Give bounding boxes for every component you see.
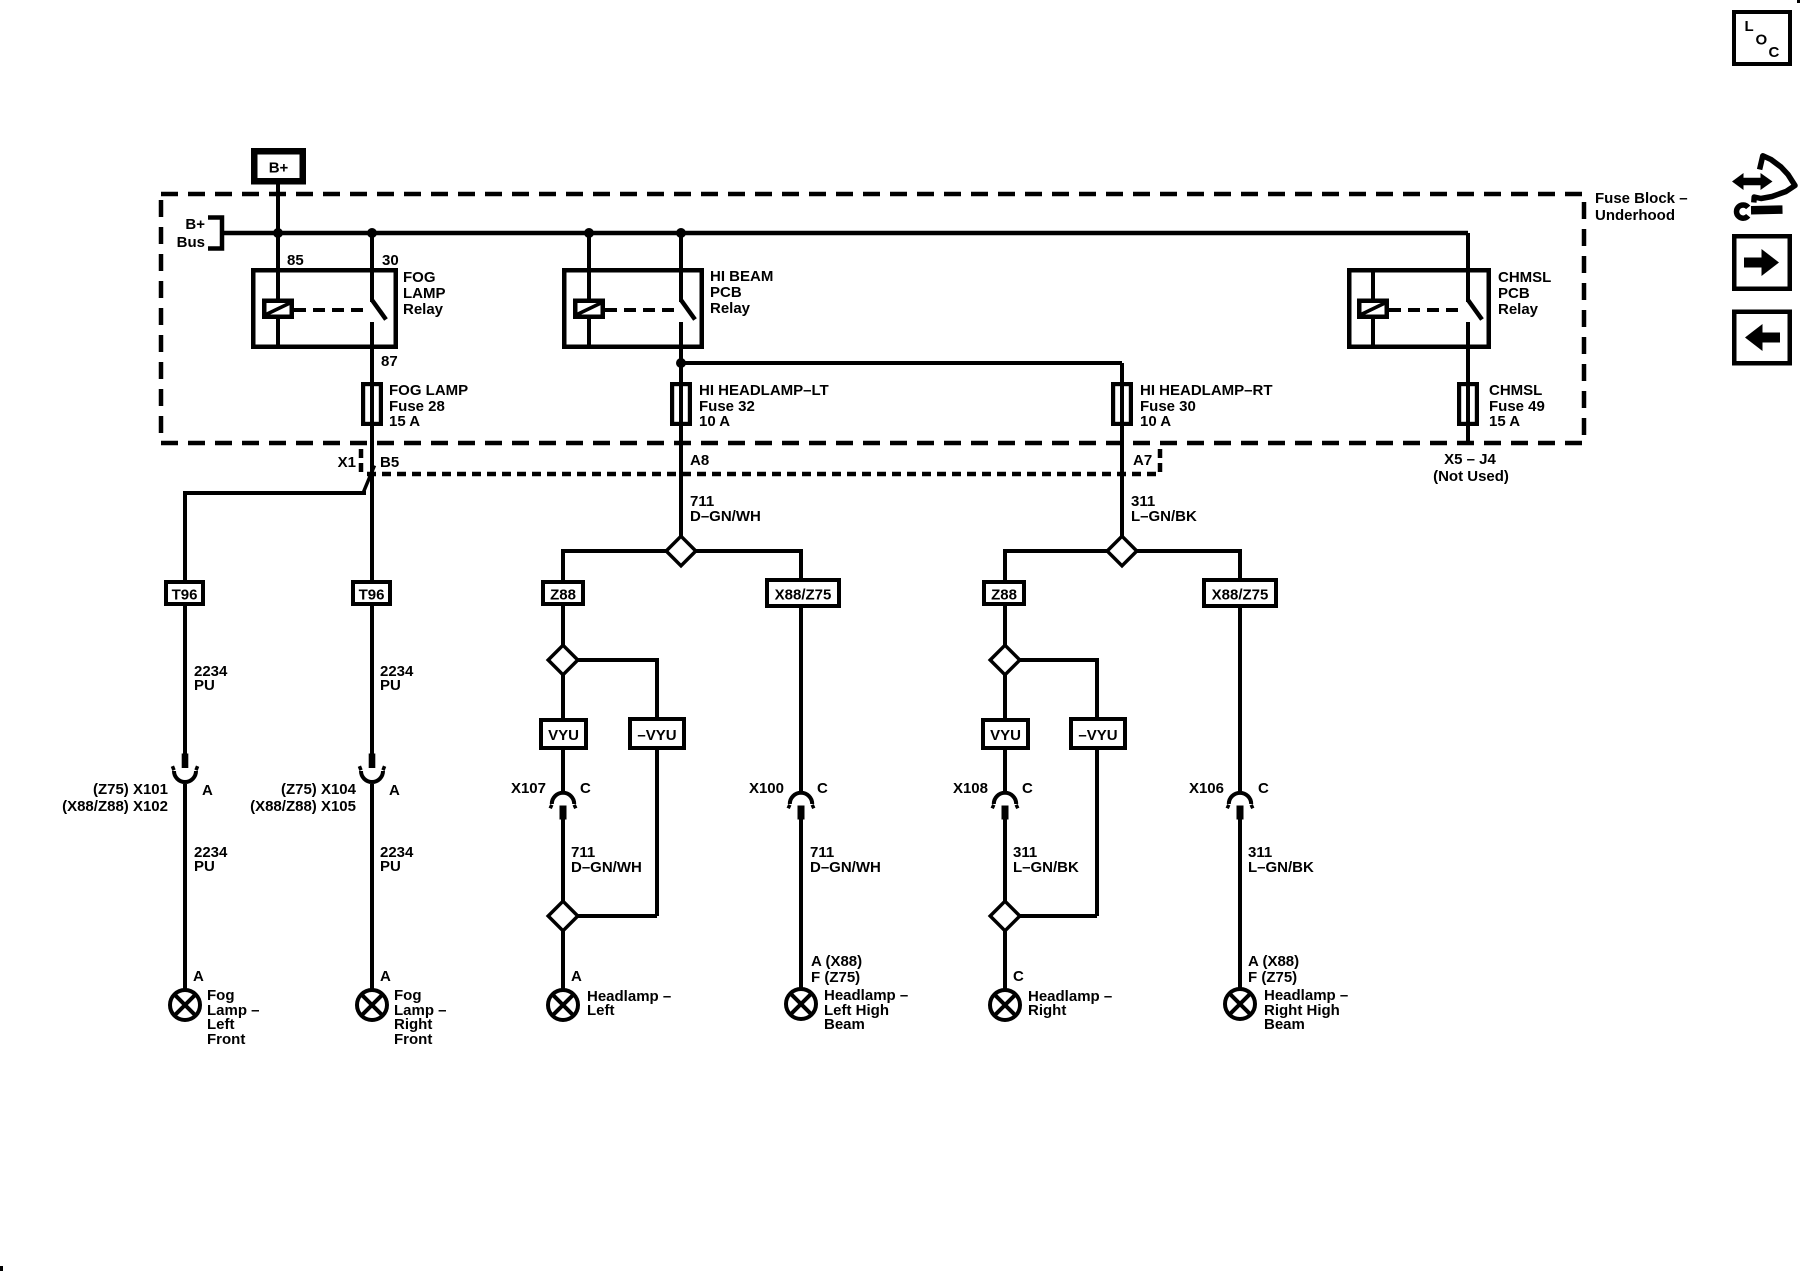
svg-text:A (X88): A (X88) [1248,953,1299,970]
svg-text:Bus: Bus [177,234,205,251]
svg-text:D–GN/WH: D–GN/WH [571,859,642,876]
svg-text:PU: PU [380,677,401,694]
wire Z88 through splice S5 to VYU (right) [1003,606,1007,718]
connector X101/X102 labels [62,781,168,815]
svg-text:(X88/Z88) X105: (X88/Z88) X105 [250,798,356,815]
svg-text:FOG: FOG [403,269,436,286]
connector X5 - J4 label [1433,451,1509,485]
wire 311 L-GN/BK X106 to high beam lamp [1238,820,1242,989]
svg-text:Front: Front [394,1031,432,1048]
terminal C label (X108) [1022,780,1033,797]
svg-text:85: 85 [287,252,304,269]
terminal A/F labels (headlamp right high beam) [1248,953,1299,986]
pin 87 label (FOG LAMP relay) [381,353,398,370]
svg-text:Left: Left [587,1002,615,1019]
wire fuse 49 to X5-J4 (not used) [1466,426,1470,445]
relay FOG LAMP label [403,269,446,318]
svg-text:D–GN/WH: D–GN/WH [810,859,881,876]
connector Z88 (right) [984,582,1024,604]
wire S2 to -VYU branch (left) [563,658,657,717]
svg-text:HI HEADLAMP–RT: HI HEADLAMP–RT [1140,382,1273,399]
svg-text:X5 – J4: X5 – J4 [1444,451,1496,468]
wire fog relay pin 87 to fuse 28 [370,322,374,382]
inline connector X104/X105 (right fog lamp) [359,754,384,783]
splice S6 right headlamp [990,901,1020,931]
node hi beam relay pin 30 bus junction [676,228,686,238]
inline connector X108 [992,793,1018,820]
svg-text:X106: X106 [1189,780,1224,797]
svg-text:X1: X1 [338,454,356,471]
wire label 2234 PU (left upper) [194,663,228,694]
svg-text:CHMSL: CHMSL [1498,269,1551,286]
fog lamp left front label [207,987,260,1048]
wire X88/Z75 to X100 [799,608,803,792]
wire X88/Z75 to X106 [1238,608,1242,792]
wire -VYU to splice S6 (right) [1005,750,1097,916]
lamp Fog Lamp - Right Front [357,990,387,1020]
connector X1 edge mark [359,449,364,476]
svg-text:CHMSL: CHMSL [1489,382,1542,399]
connector X88/Z75 (left) [767,580,839,606]
svg-text:X108: X108 [953,780,988,797]
svg-text:Beam: Beam [1264,1016,1305,1033]
relay CHMSL PCB (coil, switch, box) [1349,270,1489,347]
wire bus to fog relay pin 30 [370,233,374,302]
wire VYU to X108 (right) [1003,750,1007,792]
terminal C label (headlamp right) [1013,968,1024,985]
terminal A label (right fog connector) [389,782,400,799]
connector Z88 (left) [543,582,583,604]
splice tick at connector B5 [364,466,375,493]
inline connector X101/X102 (left fog lamp) [172,754,197,783]
harness code -VYU (left) [630,719,684,748]
wire chmsl relay coil stub top [1371,270,1375,299]
wire bus corner down to chmsl relay pin 30 [1466,233,1470,302]
fuse 30 label [1140,382,1273,430]
lamp Fog Lamp - Left Front [170,990,200,1020]
svg-text:F (Z75): F (Z75) [1248,969,1297,986]
svg-text:HI HEADLAMP–LT: HI HEADLAMP–LT [699,382,829,399]
page icon navigation (double arrow, swoosh, wrench) [1732,156,1795,218]
wire label 311 L-GN/BK (at A7) [1131,493,1197,525]
svg-text:–VYU: –VYU [1078,727,1117,744]
svg-text:Relay: Relay [403,301,444,318]
svg-text:F (Z75): F (Z75) [811,969,860,986]
svg-text:T96: T96 [172,587,198,604]
wire -VYU to splice S3 (left) [563,750,657,916]
splice S4 right headlamps [1107,536,1137,566]
lamp Headlamp - Right [990,990,1020,1020]
headlamp right label [1028,988,1112,1019]
terminal A label (left fog connector) [202,782,213,799]
wire B+ feed to bus and relay coil pin 85 [276,184,280,299]
node hi beam output junction [676,358,686,368]
power symbol B+ [254,151,303,181]
svg-text:HI BEAM: HI BEAM [710,268,773,285]
wire splice to X88/Z75 branch (left) [681,549,803,578]
svg-text:X88/Z75: X88/Z75 [775,587,832,604]
connector X106 label [1189,780,1224,797]
connector X107 label [511,780,546,797]
svg-text:C: C [1022,780,1033,797]
headlamp right high beam label [1264,987,1348,1033]
node hi beam relay pin 85 bus junction [584,228,594,238]
svg-text:C: C [1769,44,1780,61]
connector row dashed line [367,472,1160,477]
fuse HI HEADLAMP-LT Fuse 32 10 A [672,382,690,426]
svg-text:10 A: 10 A [699,413,730,430]
svg-text:15 A: 15 A [389,413,420,430]
wire VYU to X107 (left) [561,750,565,792]
svg-text:10 A: 10 A [1140,413,1171,430]
wire chmsl relay switch to fuse 49 [1466,322,1470,382]
page icon LOC box [1734,12,1790,64]
lamp Headlamp - Right High Beam [1225,989,1255,1019]
terminal C label (X100) [817,780,828,797]
wire hi beam relay pin 87 to fuse 32 [679,322,683,382]
fuse 49 label [1489,382,1545,430]
svg-text:A: A [193,968,204,985]
wire S5 to -VYU branch (right) [1005,658,1097,717]
wire label 311 L-GN/BK (below X108) [1013,844,1079,876]
svg-text:D–GN/WH: D–GN/WH [690,508,761,525]
connector T96 (right fog lamp) [353,582,390,604]
svg-text:A: A [380,968,391,985]
svg-text:PU: PU [194,858,215,875]
wire splice to Z88 branch (right) [1003,549,1122,580]
connector X104/X105 labels [250,781,357,815]
node fog relay pin 30 bus junction [367,228,377,238]
svg-text:Z88: Z88 [991,587,1017,604]
wire B+ bus [220,231,1468,236]
terminal C label (X106) [1258,780,1269,797]
connector X88/Z75 (right) [1204,580,1276,606]
fuse CHMSL Fuse 49 15 A [1459,382,1477,426]
wire label 2234 PU (left lower) [194,844,228,875]
fuse HI HEADLAMP-RT Fuse 30 10 A [1113,382,1131,426]
wire branch to left fog lamp [185,491,366,580]
wire Z88 through splice S2 to VYU (left) [561,606,565,718]
svg-text:C: C [580,780,591,797]
wire bus to hi beam relay pin 30 [679,233,683,302]
svg-text:FOG LAMP: FOG LAMP [389,382,468,399]
svg-text:L–GN/BK: L–GN/BK [1248,859,1314,876]
fuse 32 label [699,382,829,430]
svg-text:30: 30 [382,252,399,269]
svg-text:PCB: PCB [1498,285,1530,302]
fuse FOG LAMP Fuse 28 15 A [363,382,381,426]
wire label 2234 PU (right lower) [380,844,414,875]
fog lamp right front label [394,987,447,1048]
inline connector X107 [550,793,576,820]
svg-text:L: L [1745,18,1754,35]
terminal C label (X107) [580,780,591,797]
node B+ bus tap junction [273,228,283,238]
wire label 711 D-GN/WH (at A8) [690,493,761,525]
wire bus to hi beam relay coil [587,233,591,299]
wire 2234 PU right to lamp [370,784,374,989]
wire hi beam relay coil to box bottom [587,319,591,346]
lamp Headlamp - Left High Beam [786,989,816,1019]
svg-text:A7: A7 [1133,452,1152,469]
wire 711 D-GN/WH X100 to high beam lamp [799,820,803,989]
fuse block name label [1595,190,1688,224]
svg-text:–VYU: –VYU [637,727,676,744]
connector X1 label [338,454,356,471]
terminal A8 label [690,452,709,469]
wire fuse 32 output 711 D-GN/WH [679,426,683,551]
svg-text:A8: A8 [690,452,709,469]
fuse 28 label [389,382,468,430]
svg-text:Fuse Block –: Fuse Block – [1595,190,1688,207]
svg-text:87: 87 [381,353,398,370]
svg-text:L–GN/BK: L–GN/BK [1013,859,1079,876]
svg-text:(Not Used): (Not Used) [1433,468,1509,485]
wire fuse 28 output through B5 to right fog lamp branch [370,426,374,580]
connector X100 label [749,780,784,797]
svg-text:Right: Right [1028,1002,1066,1019]
splice S2 left low beam [548,645,578,675]
terminal A/F labels (headlamp left high beam) [811,953,862,986]
svg-text:L–GN/BK: L–GN/BK [1131,508,1197,525]
relay HI BEAM PCB label [710,268,773,317]
relay HI BEAM PCB (coil, switch, box) [564,270,702,347]
harness code VYU (right) [983,720,1028,748]
relay FOG LAMP (coil, switch, box) [253,270,396,347]
wire label 311 L-GN/BK (below X106) [1248,844,1314,876]
page icon forward arrow box [1734,236,1790,289]
svg-text:PCB: PCB [710,284,742,301]
svg-text:Beam: Beam [824,1016,865,1033]
svg-text:A: A [571,968,582,985]
wire 311 L-GN/BK X108 through splice S6 to lamp [1003,820,1007,993]
svg-text:PU: PU [380,858,401,875]
wire 2234 PU left above connector [183,606,187,754]
svg-text:(Z75) X101: (Z75) X101 [93,781,168,798]
svg-text:PU: PU [194,677,215,694]
terminal A7 label [1133,452,1152,469]
svg-text:C: C [817,780,828,797]
wire chmsl relay coil stub bottom [1371,319,1375,346]
lamp Headlamp - Left [548,990,578,1020]
svg-text:A (X88): A (X88) [811,953,862,970]
terminal A label (fog lamp right front) [380,968,391,985]
harness code -VYU (right) [1071,719,1125,748]
pin 30 label (FOG LAMP relay) [382,252,399,269]
svg-text:A: A [389,782,400,799]
wire 2234 PU left to lamp [183,784,187,989]
svg-text:C: C [1258,780,1269,797]
wire jumper hi beam output to fuse 30 [681,363,1122,382]
wire 2234 PU right above connector [370,606,374,754]
wire splice to X88/Z75 branch (right) [1122,549,1242,578]
splice S3 left headlamp [548,901,578,931]
pin 85 label (FOG LAMP relay) [287,252,304,269]
connector A7 edge mark [1158,449,1163,476]
terminal A label (headlamp left) [571,968,582,985]
B+ Bus bracket and label [177,216,222,251]
svg-text:LAMP: LAMP [403,285,446,302]
svg-text:C: C [1013,968,1024,985]
svg-text:VYU: VYU [990,727,1021,744]
svg-text:X100: X100 [749,780,784,797]
fuse block outline (Fuse Block - Underhood) [161,194,1584,443]
svg-text:B5: B5 [380,454,399,471]
svg-text:(Z75) X104: (Z75) X104 [281,781,357,798]
svg-text:(X88/Z88) X102: (X88/Z88) X102 [62,798,168,815]
connector X108 label [953,780,988,797]
inline connector X100 [788,793,814,820]
svg-text:VYU: VYU [548,727,579,744]
svg-text:15 A: 15 A [1489,413,1520,430]
inline connector X106 [1227,793,1253,820]
svg-text:O: O [1756,32,1768,49]
svg-text:B+: B+ [269,160,289,177]
wire 711 D-GN/WH X107 through splice S3 to lamp [561,820,565,993]
svg-text:Relay: Relay [710,300,751,317]
headlamp left high beam label [824,987,908,1033]
svg-text:T96: T96 [359,587,385,604]
relay CHMSL PCB label [1498,269,1551,318]
page corner mark bottom left [0,1266,3,1271]
svg-text:X107: X107 [511,780,546,797]
headlamp left label [587,988,671,1019]
svg-text:A: A [202,782,213,799]
wire label 2234 PU (right upper) [380,663,414,694]
page icon back arrow box [1734,312,1790,364]
wire fog relay coil to box bottom [276,319,280,346]
terminal A label (fog lamp left front) [193,968,204,985]
svg-text:Underhood: Underhood [1595,207,1675,224]
svg-text:Z88: Z88 [550,587,576,604]
wire label 711 D-GN/WH (below X100) [810,844,881,876]
splice S1 left headlamps [666,536,696,566]
wire label 711 D-GN/WH (below X107) [571,844,642,876]
terminal B5 label [380,454,399,471]
svg-text:Relay: Relay [1498,301,1539,318]
page corner mark top right [1797,0,1800,3]
wire splice to Z88 branch (left) [561,549,681,580]
splice S5 right low beam [990,645,1020,675]
svg-text:B+: B+ [185,216,205,233]
wire fuse 30 output 311 L-GN/BK [1120,426,1124,551]
svg-text:Front: Front [207,1031,245,1048]
svg-text:X88/Z75: X88/Z75 [1212,587,1269,604]
connector T96 (left fog lamp) [166,582,203,604]
harness code VYU (left) [541,720,586,748]
